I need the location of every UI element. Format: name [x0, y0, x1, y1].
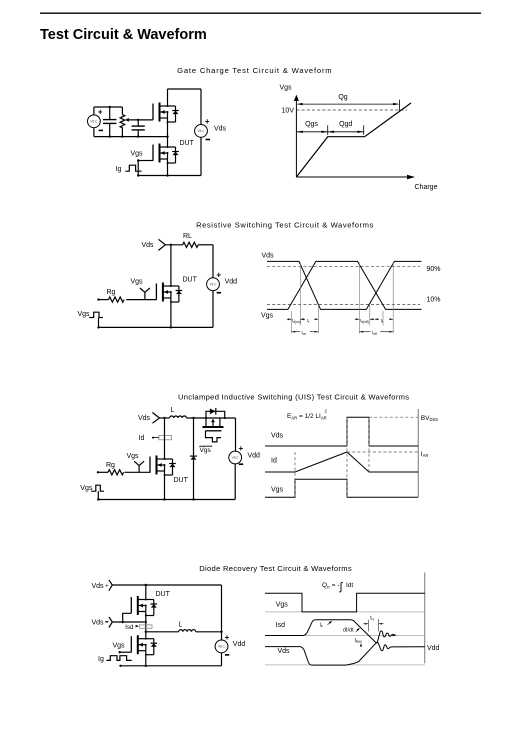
Vds zero axis gray: [265, 664, 425, 666]
svg-text:Vgs: Vgs: [131, 279, 144, 286]
wire right rail: [235, 418, 237, 451]
node C1 bottom: [109, 135, 111, 137]
gate charge curve: [296, 103, 411, 177]
svg-text:Qrr = -: Qrr = -: [322, 582, 339, 590]
wire Vds node to L: [160, 417, 170, 419]
Id trace: [265, 452, 418, 472]
axis Vgs vertical: [295, 97, 297, 177]
Vds+ probe chevron: [109, 580, 112, 591]
wire L to clamp: [187, 417, 236, 419]
transistor Q2 lower: [131, 635, 157, 655]
Qgd arrow: [328, 131, 364, 133]
svg-text:Isd: Isd: [125, 625, 133, 631]
VDC source Vdd: [229, 451, 242, 464]
timing ticks group 2: [359, 263, 393, 334]
wire bottom rail: [121, 665, 222, 667]
axis Vgs arrowhead: [294, 95, 299, 101]
svg-text:Vdd: Vdd: [225, 279, 238, 286]
svg-text:DUT: DUT: [156, 591, 171, 598]
10V dashed line: [296, 109, 407, 111]
10% dashed line: [267, 303, 420, 305]
svg-text:Idt: Idt: [346, 582, 353, 589]
wire main column top: [145, 585, 147, 600]
dashed vertical at peak: [346, 417, 348, 497]
transistor Q1 upper: [153, 103, 179, 123]
Isd ringing end arrow: [393, 634, 397, 637]
node diode column rail: [192, 498, 194, 500]
VDC source Vdd: [207, 278, 220, 291]
svg-text:td(off): td(off): [360, 318, 369, 324]
node gate Ig: [137, 159, 139, 161]
svg-text:2: 2: [325, 409, 328, 414]
Vgs probe stem: [134, 461, 144, 472]
clamp fet source stub: [219, 418, 221, 427]
Isd sense box: [140, 625, 152, 628]
Vds probe chevron: [158, 239, 165, 250]
wire right rail bottom: [212, 291, 214, 328]
svg-text:Qgd: Qgd: [339, 121, 352, 128]
wire bottom rail: [98, 499, 235, 501]
svg-text:Rg: Rg: [106, 462, 115, 469]
svg-text:Ig: Ig: [98, 656, 104, 663]
wire column to L: [146, 631, 179, 633]
axis Charge arrowhead: [407, 175, 415, 180]
capacitor C2: [132, 126, 145, 130]
dI/dt arrow: [356, 628, 360, 632]
Vgs probe stem: [140, 288, 150, 300]
node DUT source rail: [170, 326, 172, 328]
svg-text:Vds: Vds: [92, 620, 105, 627]
label Vgs-bar: [199, 446, 212, 454]
Qg arrow: [297, 103, 400, 105]
label EAR formula: [287, 409, 328, 421]
svg-text:Vgs: Vgs: [271, 487, 284, 494]
Qgs arrow: [296, 131, 327, 133]
Id sense arrow: [152, 437, 159, 439]
svg-text:∫: ∫: [339, 581, 344, 593]
svg-text:+: +: [216, 271, 221, 280]
clamp fet body arrow: [211, 419, 215, 427]
td(off) arrows: [355, 318, 374, 320]
IF arrow: [328, 621, 333, 625]
svg-text:tf: tf: [381, 318, 383, 324]
td(on) arrows: [287, 318, 305, 320]
svg-text:+: +: [205, 117, 210, 126]
Isd trace: [265, 620, 395, 643]
wire RL to rail: [198, 244, 213, 246]
wire pulse to rail: [97, 491, 99, 499]
waveform right axis: [424, 572, 426, 663]
transistor DUT: [150, 456, 176, 476]
svg-text:Vdd: Vdd: [248, 452, 261, 459]
wire DUT source down: [167, 163, 169, 176]
wire V1 top: [93, 107, 95, 115]
V1 minus label: [99, 129, 103, 131]
node Rg input terminal: [97, 471, 99, 473]
Vgs pulse symbol: [91, 485, 104, 491]
toff bracket: [359, 331, 393, 333]
svg-text:IAR: IAR: [421, 451, 429, 458]
svg-text:Unclamped Inductive Switching: Unclamped Inductive Switching (UIS) Test…: [178, 393, 409, 402]
wire Vds node: [165, 244, 182, 246]
transistor DUT: [153, 144, 179, 164]
Vds trace: [267, 261, 422, 309]
svg-text:RL: RL: [183, 233, 192, 240]
wire DUT source down: [164, 475, 166, 500]
svg-text:DUT: DUT: [183, 277, 198, 284]
wire bottom rail: [99, 326, 214, 328]
Vgs pulse symbol: [89, 312, 103, 317]
Vds probe chevron: [152, 413, 159, 424]
transistor DUT: [156, 283, 182, 303]
svg-text:Qgs: Qgs: [305, 121, 318, 128]
Isd zero axis gray: [265, 635, 425, 637]
Vgs zero axis gray: [265, 611, 425, 613]
ton bracket: [291, 331, 318, 333]
svg-text:L: L: [179, 622, 183, 629]
wire rail to bottom: [234, 464, 236, 500]
wire top rail: [112, 584, 221, 586]
svg-text:Vgs: Vgs: [276, 601, 289, 608]
wire drain column: [170, 245, 172, 286]
resistor Rg: [109, 297, 125, 302]
node after L: [192, 417, 194, 419]
waveform right axis: [417, 409, 419, 497]
node bottom rail left terminal: [119, 665, 121, 667]
svg-text:+: +: [105, 584, 108, 590]
Vds trace: [265, 643, 425, 666]
svg-text:Vds: Vds: [142, 242, 155, 249]
wire Rg input: [98, 471, 108, 473]
capacitor C1: [103, 120, 116, 124]
svg-text:Vgs: Vgs: [200, 447, 212, 454]
node Q2 source rail: [145, 665, 147, 667]
clamp fet channel: [203, 426, 224, 428]
svg-text:Vds: Vds: [92, 583, 105, 590]
svg-text:Id: Id: [271, 458, 277, 465]
wire right rail: [221, 585, 223, 640]
node gate tie: [122, 621, 124, 623]
svg-text:Vgs: Vgs: [80, 485, 93, 492]
node C2 bottom: [137, 135, 139, 137]
wire Vdd bottom: [221, 653, 223, 666]
inductor L: [179, 630, 196, 632]
Vgs trace: [265, 593, 425, 612]
page border rule: [40, 12, 481, 14]
node wiper C2: [137, 119, 139, 121]
capacitor C1 top lead: [109, 107, 111, 120]
node clamp left: [205, 417, 207, 419]
potentiometer R1 bottom lead: [121, 127, 123, 136]
svg-text:Vds: Vds: [271, 432, 284, 439]
svg-text:Resistive Switching Test Circu: Resistive Switching Test Circuit & Wavef…: [196, 220, 374, 229]
svg-text:Diode Recovery Test Circuit &: Diode Recovery Test Circuit & Waveforms: [199, 564, 352, 573]
tr arrows: [301, 318, 319, 320]
trr arrows: [363, 623, 383, 625]
svg-text:dI/dt: dI/dt: [343, 627, 354, 633]
clamp diode loop: [206, 411, 225, 418]
wire L to rail: [196, 631, 222, 633]
clamp fet gate bar: [206, 430, 222, 432]
node gate lead terminal: [119, 651, 121, 653]
node top rail: [145, 584, 147, 586]
svg-text:IRM: IRM: [355, 638, 362, 644]
inductor L: [170, 416, 187, 418]
svg-text:ton: ton: [302, 330, 307, 336]
potentiometer wiper arrow: [125, 118, 129, 122]
Vds- probe chevron: [109, 617, 112, 628]
wire source column to sensor: [145, 616, 147, 639]
svg-text:10%: 10%: [427, 297, 441, 304]
wire V1 bottom: [93, 128, 95, 137]
svg-text:Test Circuit & Waveform: Test Circuit & Waveform: [40, 27, 207, 43]
svg-text:Vgs: Vgs: [113, 643, 126, 650]
svg-text:+: +: [238, 444, 243, 453]
timing ticks group 1: [291, 263, 318, 334]
svg-text:Vgs: Vgs: [261, 313, 274, 320]
transistor DUT upper: [131, 596, 157, 616]
inverted Vgs pulse symbol: [209, 438, 221, 442]
node C1 top: [109, 106, 111, 108]
wire Vds source bottom: [200, 137, 202, 175]
wire gate lead: [125, 471, 151, 473]
UIS waveform: [265, 409, 438, 498]
Vds- minus sign: [105, 621, 108, 623]
wire DUT source down: [170, 302, 172, 327]
svg-text:Vds: Vds: [138, 415, 151, 422]
Ig pulse symbol: [125, 165, 141, 171]
IAR dashed line: [347, 451, 418, 453]
svg-text:Isd: Isd: [276, 622, 285, 629]
node L rail junction: [220, 631, 222, 633]
Qgs Qgd ticks: [328, 125, 364, 135]
svg-text:DUT: DUT: [180, 140, 195, 147]
svg-text:Ig: Ig: [116, 166, 122, 173]
Vdd minus label: [225, 654, 229, 656]
node clamp right: [224, 417, 226, 419]
wire Ig drop: [137, 161, 139, 176]
svg-text:Vdd: Vdd: [233, 641, 246, 648]
90% dashed line: [267, 265, 420, 267]
Id sense box: [159, 435, 172, 439]
Vds trace: [265, 417, 418, 446]
wire DUT gate to source tie: [123, 613, 132, 622]
svg-text:IF: IF: [320, 623, 324, 629]
wire Q2 source down: [145, 655, 147, 666]
svg-text:Vgs: Vgs: [280, 85, 293, 92]
wire Vds- row: [112, 621, 146, 623]
dashed vertical at ramp start: [294, 452, 296, 497]
svg-text:+: +: [225, 633, 230, 642]
wire wiper to gate: [129, 119, 153, 121]
svg-text:Vgs: Vgs: [127, 453, 140, 460]
svg-text:90%: 90%: [427, 266, 441, 273]
capacitor C1 bottom lead: [109, 123, 111, 136]
label Qrr formula: [322, 581, 353, 593]
wire DUT gate lead: [138, 160, 153, 162]
svg-text:L: L: [171, 407, 175, 414]
axis Charge horizontal: [296, 176, 409, 178]
node DUT source rail: [163, 498, 165, 500]
node pulse bottom: [97, 326, 99, 328]
dashed vertical at pulse end: [368, 417, 370, 472]
IRM up arrow: [360, 643, 362, 647]
wire Vds node down through sensor: [164, 418, 166, 459]
svg-text:EAR = 1/2 LIAR: EAR = 1/2 LIAR: [287, 413, 327, 421]
wire pulse to rail: [98, 318, 100, 328]
node Rg input terminal: [97, 298, 99, 300]
wire Rg input: [99, 299, 109, 301]
svg-text:Charge: Charge: [415, 184, 438, 191]
wire Q1 drain up: [167, 89, 169, 106]
clamp diode: [210, 408, 216, 415]
capacitor C2 top lead: [137, 120, 139, 126]
Vdd minus label: [217, 292, 221, 294]
wire Q1 source to DUT drain: [167, 122, 169, 147]
node pulse bottom: [97, 498, 99, 500]
svg-text:BVDSS: BVDSS: [421, 415, 438, 422]
resistive switching waveform: [261, 253, 441, 336]
node R1 bottom: [121, 135, 123, 137]
Vgs trace: [267, 261, 422, 309]
svg-text:Id: Id: [139, 435, 145, 442]
diode D1: [190, 456, 197, 460]
wire gate lead: [126, 299, 156, 301]
node Ig bottom: [137, 174, 139, 176]
wire top left rail: [94, 106, 123, 108]
svg-text:Qg: Qg: [338, 94, 347, 101]
VDC source Vdd: [215, 640, 228, 653]
Ig double pulse symbol: [107, 656, 132, 661]
BVDSS dashed line: [369, 416, 418, 418]
wire to Vds source top: [200, 89, 202, 124]
Vgs trace: [265, 479, 418, 497]
VDC source Vds: [195, 124, 208, 137]
svg-text:+: +: [98, 108, 103, 117]
wire bottom left rail: [94, 136, 168, 138]
gate charge waveform: [280, 85, 438, 192]
node mid rail: [166, 135, 168, 137]
clamp fet gate lead: [206, 431, 209, 438]
wire right rail top: [212, 245, 214, 278]
svg-text:Vgs: Vgs: [131, 150, 144, 157]
VDC source V1 (gate supply): [88, 115, 101, 128]
svg-text:10V: 10V: [282, 108, 295, 115]
svg-text:tr: tr: [307, 318, 310, 324]
svg-text:Vds: Vds: [262, 253, 275, 260]
svg-text:trr: trr: [370, 616, 375, 622]
svg-text:Rg: Rg: [107, 289, 116, 296]
Qg right tick: [398, 100, 400, 111]
svg-text:toff: toff: [372, 330, 377, 336]
clamp fet drain stub: [205, 418, 207, 427]
Isd sense arrow: [136, 625, 139, 628]
svg-text:Vds: Vds: [214, 126, 227, 133]
node Vds: [163, 417, 165, 419]
node L branch: [145, 631, 147, 633]
svg-text:Vgs: Vgs: [78, 311, 91, 318]
Vdd minus label: [239, 463, 243, 465]
resistor RL: [183, 242, 199, 247]
node DUT source bottom: [166, 174, 168, 176]
resistor Rg: [108, 470, 124, 475]
svg-text:Gate Charge Test Circuit & Wav: Gate Charge Test Circuit & Waveform: [177, 66, 332, 75]
svg-text:td(on): td(on): [292, 318, 301, 324]
diode recovery waveform: [265, 572, 440, 665]
wire top rail: [168, 88, 202, 90]
Vds minus label: [206, 139, 210, 141]
node Vds- column: [145, 621, 147, 623]
trr ticks: [368, 619, 378, 631]
tf arrows: [375, 318, 394, 320]
wire bottom rail: [138, 175, 201, 177]
wire Q2 gate lead: [120, 651, 132, 653]
svg-text:Vds: Vds: [278, 648, 291, 655]
capacitor C2 bottom lead: [137, 130, 139, 137]
node Vds: [170, 244, 172, 246]
svg-text:Vdd: Vdd: [427, 645, 440, 652]
svg-text:DUT: DUT: [174, 477, 189, 484]
potentiometer R1 top lead: [121, 107, 123, 115]
potentiometer R1: [120, 115, 125, 128]
wire middle clamp diode column: [193, 418, 195, 500]
